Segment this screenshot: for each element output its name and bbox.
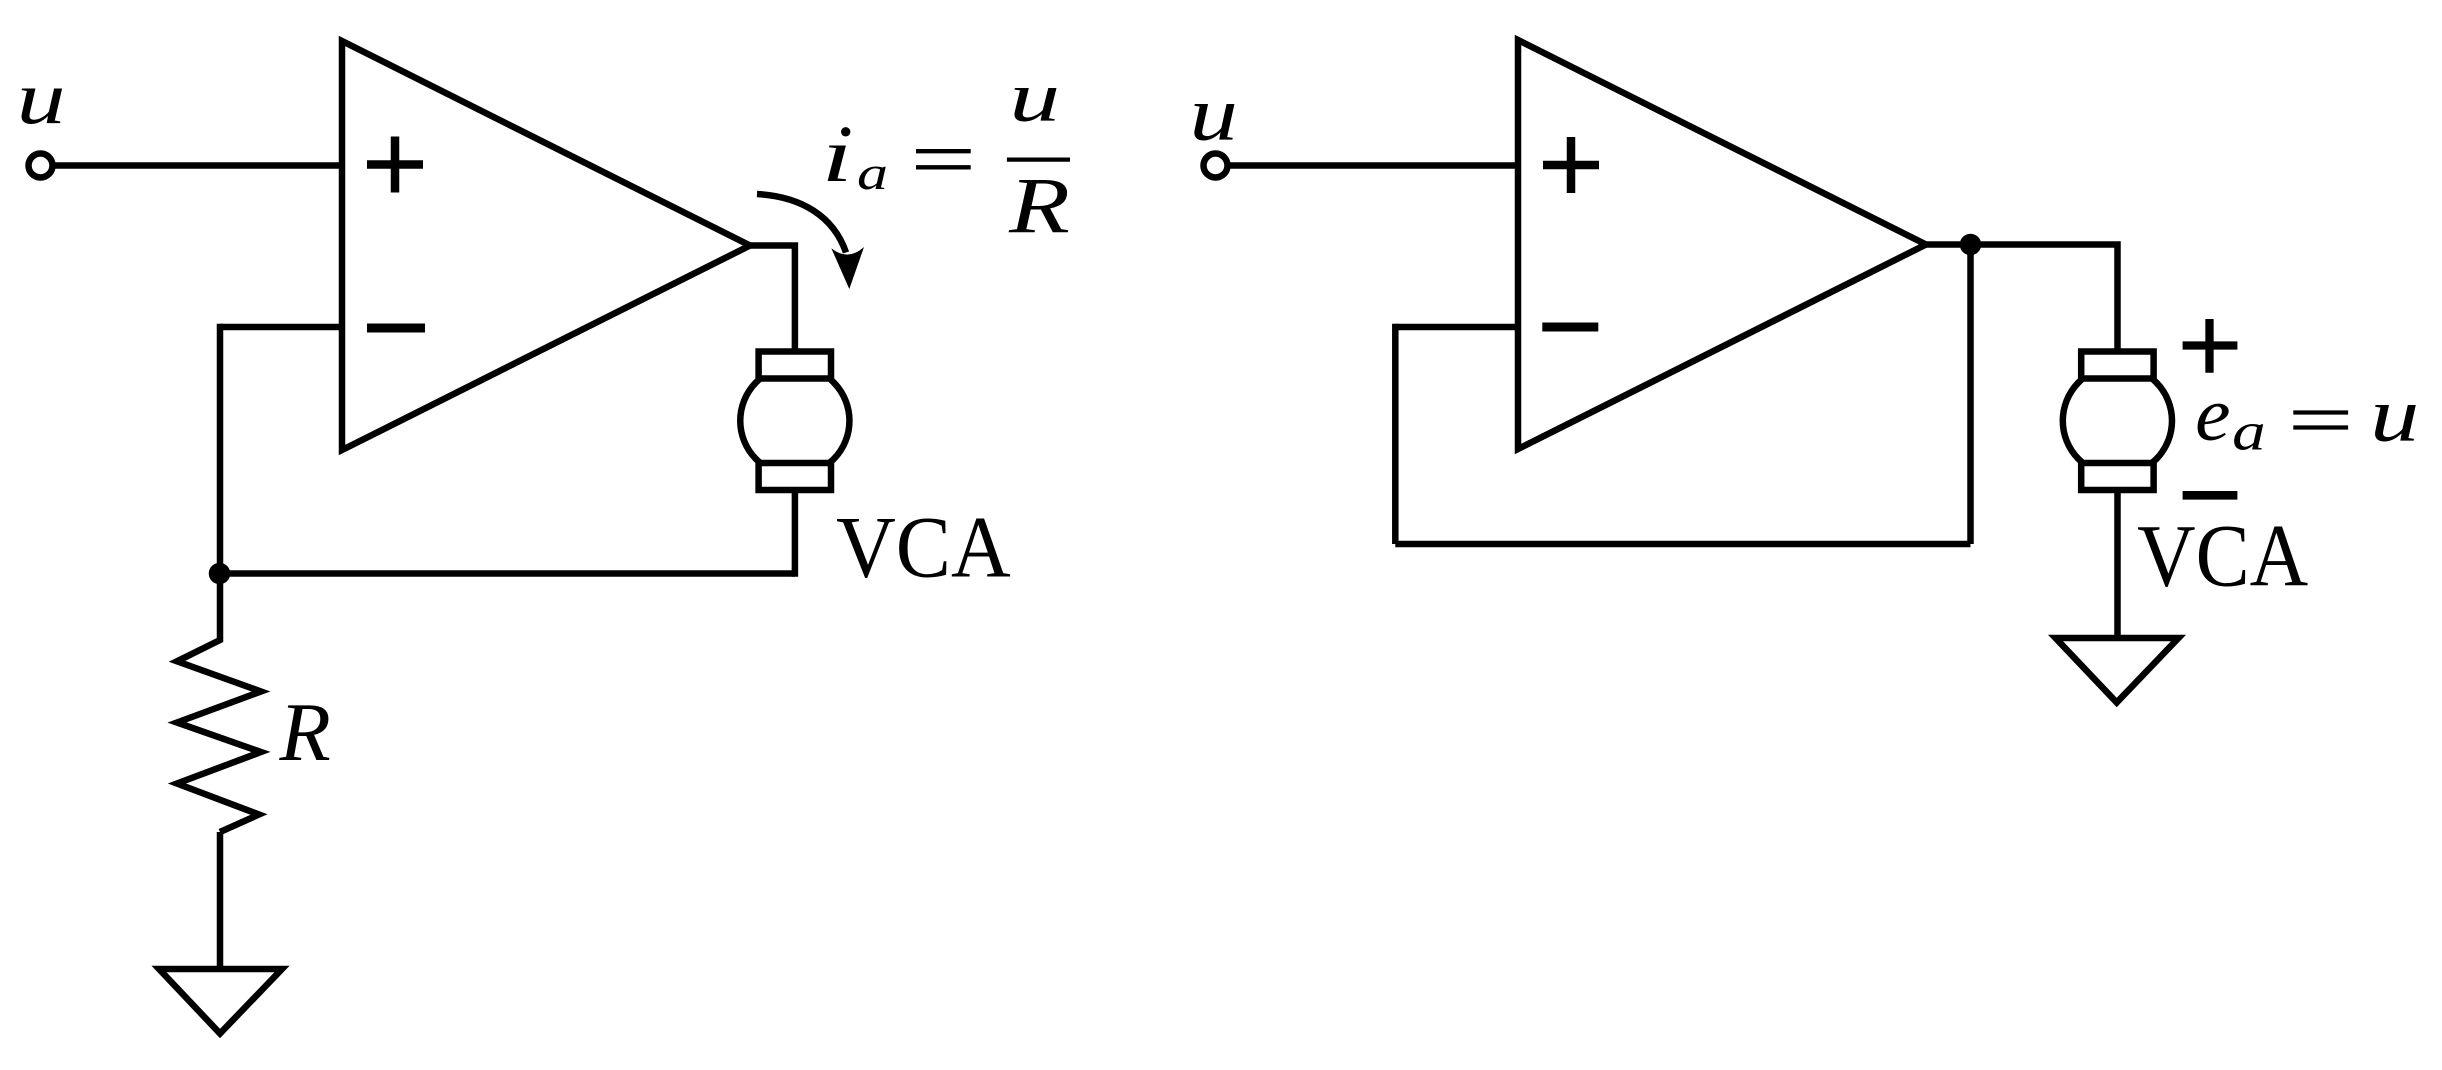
op-amp U1 + input marker bbox=[367, 137, 423, 193]
transducer VCA1 (left: circle with plates) bbox=[740, 366, 849, 475]
wire (inverting input horizontal, left) bbox=[220, 324, 345, 331]
wire (bottom horizontal from junction to VCA, left) bbox=[220, 570, 795, 577]
wire (resistor to ground, left) bbox=[217, 832, 224, 969]
wire (input to + of op-amp, left) bbox=[52, 162, 345, 169]
label - (VCA2 polarity minus) bbox=[2183, 491, 2238, 500]
wire (feedback bottom horizontal, right circuit) bbox=[1395, 541, 1970, 548]
svg-text:u: u bbox=[2370, 372, 2419, 458]
op-amp U1 - input marker bbox=[367, 324, 425, 333]
op-amp U1 (left triangle) bbox=[342, 41, 750, 450]
wire (output stub from apex down to VCA, left) bbox=[748, 246, 795, 354]
wire (feedback left vertical, right circuit) bbox=[1392, 324, 1399, 544]
wire (VCA2 to ground, right) bbox=[2114, 487, 2121, 638]
ground (right) bbox=[2056, 638, 2179, 703]
svg-text:VCA: VCA bbox=[836, 499, 1011, 596]
node junction (right output dot) bbox=[1960, 234, 1982, 256]
terminal circle (left input) bbox=[29, 154, 53, 178]
node junction (left, dot) bbox=[209, 563, 231, 585]
terminal circle (right input) bbox=[1204, 154, 1228, 178]
wire (feedback vertical from - input to junction, left) bbox=[217, 324, 224, 574]
svg-text:u: u bbox=[1190, 71, 1238, 157]
current arrow i_a (curved arrow) bbox=[757, 194, 846, 253]
label e_a = u bbox=[2195, 372, 2419, 462]
wire (feedback right vertical up to output junction, right circuit) bbox=[1967, 245, 1974, 545]
svg-text:a: a bbox=[2232, 402, 2266, 462]
label i_a = u/R bbox=[822, 58, 1070, 250]
svg-text:R: R bbox=[279, 686, 331, 779]
op-amp U2 (right triangle) bbox=[1518, 40, 1926, 449]
svg-text:VCA: VCA bbox=[2137, 508, 2308, 606]
label + (VCA2 polarity plus) bbox=[2183, 319, 2238, 373]
svg-text:a: a bbox=[857, 148, 888, 200]
svg-text:u: u bbox=[17, 57, 66, 140]
wire (output to VCA, right) bbox=[1924, 245, 2118, 354]
wire (VCA bottom lead, left) bbox=[792, 489, 799, 577]
op-amp U2 + input marker bbox=[1543, 137, 1599, 193]
wire (input to + of op-amp, right) bbox=[1227, 162, 1520, 169]
svg-text:ı: ı bbox=[822, 112, 853, 198]
op-amp U2 - input marker bbox=[1542, 323, 1598, 332]
wire (inverting input horizontal, right) bbox=[1395, 324, 1521, 331]
svg-text:R: R bbox=[1008, 162, 1070, 250]
resistor R (zigzag) bbox=[177, 574, 261, 833]
svg-text:u: u bbox=[1009, 58, 1060, 136]
ground (left) bbox=[159, 969, 282, 1034]
svg-text:e: e bbox=[2195, 373, 2230, 457]
transducer VCA2 (right: circle with plates) bbox=[2063, 366, 2172, 475]
